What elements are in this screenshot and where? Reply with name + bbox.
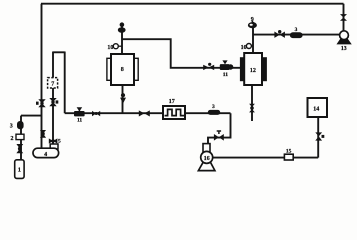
drain valve under reactor 12	[249, 104, 255, 113]
small bowtie valve x96	[92, 111, 100, 116]
valve on left vertical (x42)	[36, 99, 46, 107]
wire mid horizontal	[65, 112, 231, 114]
wire loop top	[53, 51, 65, 53]
svg-text:8: 8	[121, 67, 124, 73]
trap 7 (dashed box)	[48, 78, 58, 88]
svg-text:3: 3	[295, 27, 298, 33]
heat exchanger 17	[163, 106, 185, 119]
svg-text:10: 10	[241, 45, 247, 51]
valve 5	[49, 138, 58, 143]
component 2 (open box)	[16, 134, 24, 139]
gauge 10 left	[107, 44, 118, 51]
wire pump13 riser	[343, 4, 345, 32]
valve above cylinder 1	[16, 144, 23, 153]
wire corner down to pump16	[208, 113, 231, 144]
svg-text:7: 7	[51, 82, 54, 88]
valve with dot on left vertical above vessel 4	[40, 130, 46, 138]
filter 3 (left pill)	[17, 121, 24, 129]
wire gauge10 left stub	[118, 45, 122, 47]
valve atop reactor 8	[118, 22, 126, 32]
cylinder 1	[15, 160, 24, 179]
valve 11 (right)	[220, 60, 234, 70]
wire vessel12 top stub	[252, 22, 254, 53]
drain valve under reactor 8	[120, 93, 126, 104]
wire left vertical	[41, 4, 43, 149]
wire gauge10 right stub	[251, 45, 253, 47]
pump 13	[337, 31, 350, 44]
svg-text:9: 9	[251, 17, 254, 23]
valve above pump16	[214, 131, 224, 141]
reactor 12	[240, 53, 266, 85]
gauge 10 right	[241, 44, 252, 51]
svg-text:12: 12	[250, 68, 256, 74]
box 14	[308, 98, 328, 117]
wire pump16 outlet	[213, 157, 319, 159]
instrument 9	[248, 21, 257, 29]
filter 3 (mid pill)	[208, 110, 220, 115]
svg-text:16: 16	[204, 156, 210, 162]
svg-text:17: 17	[169, 99, 175, 105]
wire vessel12 drain stub	[251, 85, 253, 121]
svg-text:3: 3	[10, 123, 13, 129]
nozzle on vessel 4	[50, 144, 58, 149]
component 15	[284, 148, 293, 160]
svg-text:11: 11	[77, 118, 82, 124]
svg-text:15: 15	[286, 148, 292, 154]
wire top header	[41, 3, 344, 5]
wire vessel8 drain	[122, 85, 124, 113]
wire riser to box14	[317, 117, 319, 158]
wire branch to cylinder line	[21, 115, 42, 117]
svg-text:10: 10	[107, 45, 113, 51]
svg-text:3: 3	[212, 104, 215, 110]
wire top right line to pump13	[253, 34, 340, 36]
vessel 4 (horizontal drum)	[33, 148, 59, 158]
pump 16	[198, 144, 215, 171]
svg-text:14: 14	[313, 107, 319, 113]
valve 11 (left)	[74, 107, 85, 116]
reactor 8	[107, 54, 138, 85]
filter 3 (top pill)	[290, 32, 303, 38]
svg-text:13: 13	[341, 46, 347, 52]
wire line through trap 7	[52, 52, 54, 145]
svg-text:4: 4	[44, 152, 47, 158]
wire y39 cross line	[122, 39, 241, 68]
svg-text:11: 11	[223, 72, 228, 78]
bowtie valve x144	[139, 110, 150, 116]
svg-text:2: 2	[11, 136, 14, 142]
svg-text:1: 1	[18, 167, 21, 174]
wire vessel8 top stub	[121, 23, 123, 54]
valve on pump13 riser	[340, 14, 347, 21]
wire left drop	[20, 116, 22, 160]
bowtie valve on top right line	[274, 30, 285, 38]
valve below box 14	[315, 132, 324, 140]
valve on line x53	[49, 98, 58, 106]
wire loop down	[64, 52, 66, 114]
valve on line to reactor 12	[203, 63, 214, 70]
